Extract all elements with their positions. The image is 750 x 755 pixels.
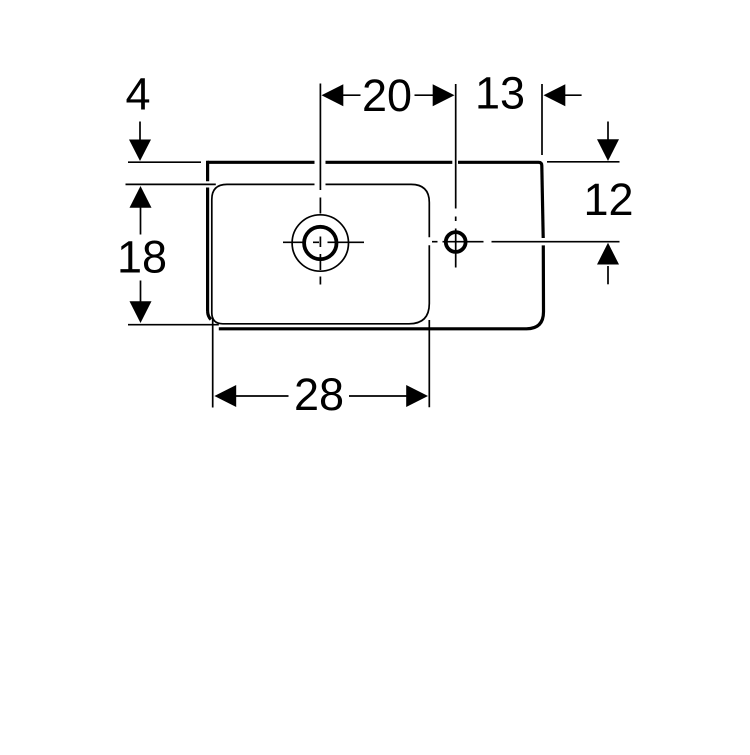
extension line for bowl bottom edge (18 lower): [128, 324, 219, 326]
dim 18 line upper segment: [140, 207, 142, 235]
svg-text:12: 12: [583, 174, 633, 225]
side hole centerline horizontal / dim 12 lower extension line: [432, 241, 620, 243]
basin outer outline bottom edge: [219, 327, 527, 330]
dim 28 arrowhead right: [406, 385, 428, 407]
dim 20 left extension line / faucet centerline top: [319, 84, 321, 191]
dim 12 arrowhead down: [597, 139, 619, 161]
svg-text:13: 13: [475, 68, 525, 119]
basin outer outline top edge: [208, 162, 544, 328]
dim 18 arrowhead up: [130, 186, 152, 208]
dim 18 arrowhead down: [130, 301, 152, 323]
dim 20 right extension line / side hole centerline top: [455, 84, 457, 209]
dim 28 left extension line: [212, 317, 214, 407]
dim 20 line: [342, 94, 434, 96]
dim 12 lower leader line: [607, 266, 609, 284]
svg-text:20: 20: [362, 70, 412, 121]
dim 13 arrow tail: [564, 94, 582, 96]
dim 18 line lower segment: [140, 281, 142, 304]
side hole circle: [446, 232, 466, 252]
inner bowl outline: [212, 184, 429, 323]
basin outer outline right edge: [542, 166, 543, 239]
basin outer outline left edge: [208, 162, 209, 311]
side hole centerline vertical dashes: [455, 217, 457, 268]
dim 13 right extension line: [541, 84, 543, 155]
faucet centerline vertical dashes: [319, 198, 321, 285]
svg-text:18: 18: [117, 232, 167, 283]
dim 20 arrowhead left: [322, 84, 344, 106]
faucet hole outer circle: [292, 215, 348, 271]
extension line for bowl top edge (dim 4 lower / 18 upper): [126, 183, 216, 185]
dim 12 upper leader line: [607, 122, 609, 143]
svg-text:28: 28: [294, 369, 344, 420]
svg-text:4: 4: [125, 69, 150, 120]
dim 20 arrowhead right: [433, 84, 455, 106]
dim 28 line: [235, 395, 409, 397]
dim 28 right extension line: [428, 320, 430, 407]
dim 28 arrowhead left: [214, 385, 236, 407]
dim 4 leader line: [139, 122, 141, 142]
dim 12 upper extension line: [547, 161, 620, 163]
dim 12 arrowhead up: [597, 243, 619, 265]
dim 13 arrowhead left: [544, 84, 566, 106]
faucet hole centerline horizontal: [283, 241, 364, 243]
extension line for basin top edge (dim 4 upper): [128, 161, 201, 163]
faucet hole inner circle: [304, 227, 336, 259]
basin outer outline bottom-left corner: [208, 312, 211, 320]
dim 4 arrowhead down: [129, 140, 151, 162]
